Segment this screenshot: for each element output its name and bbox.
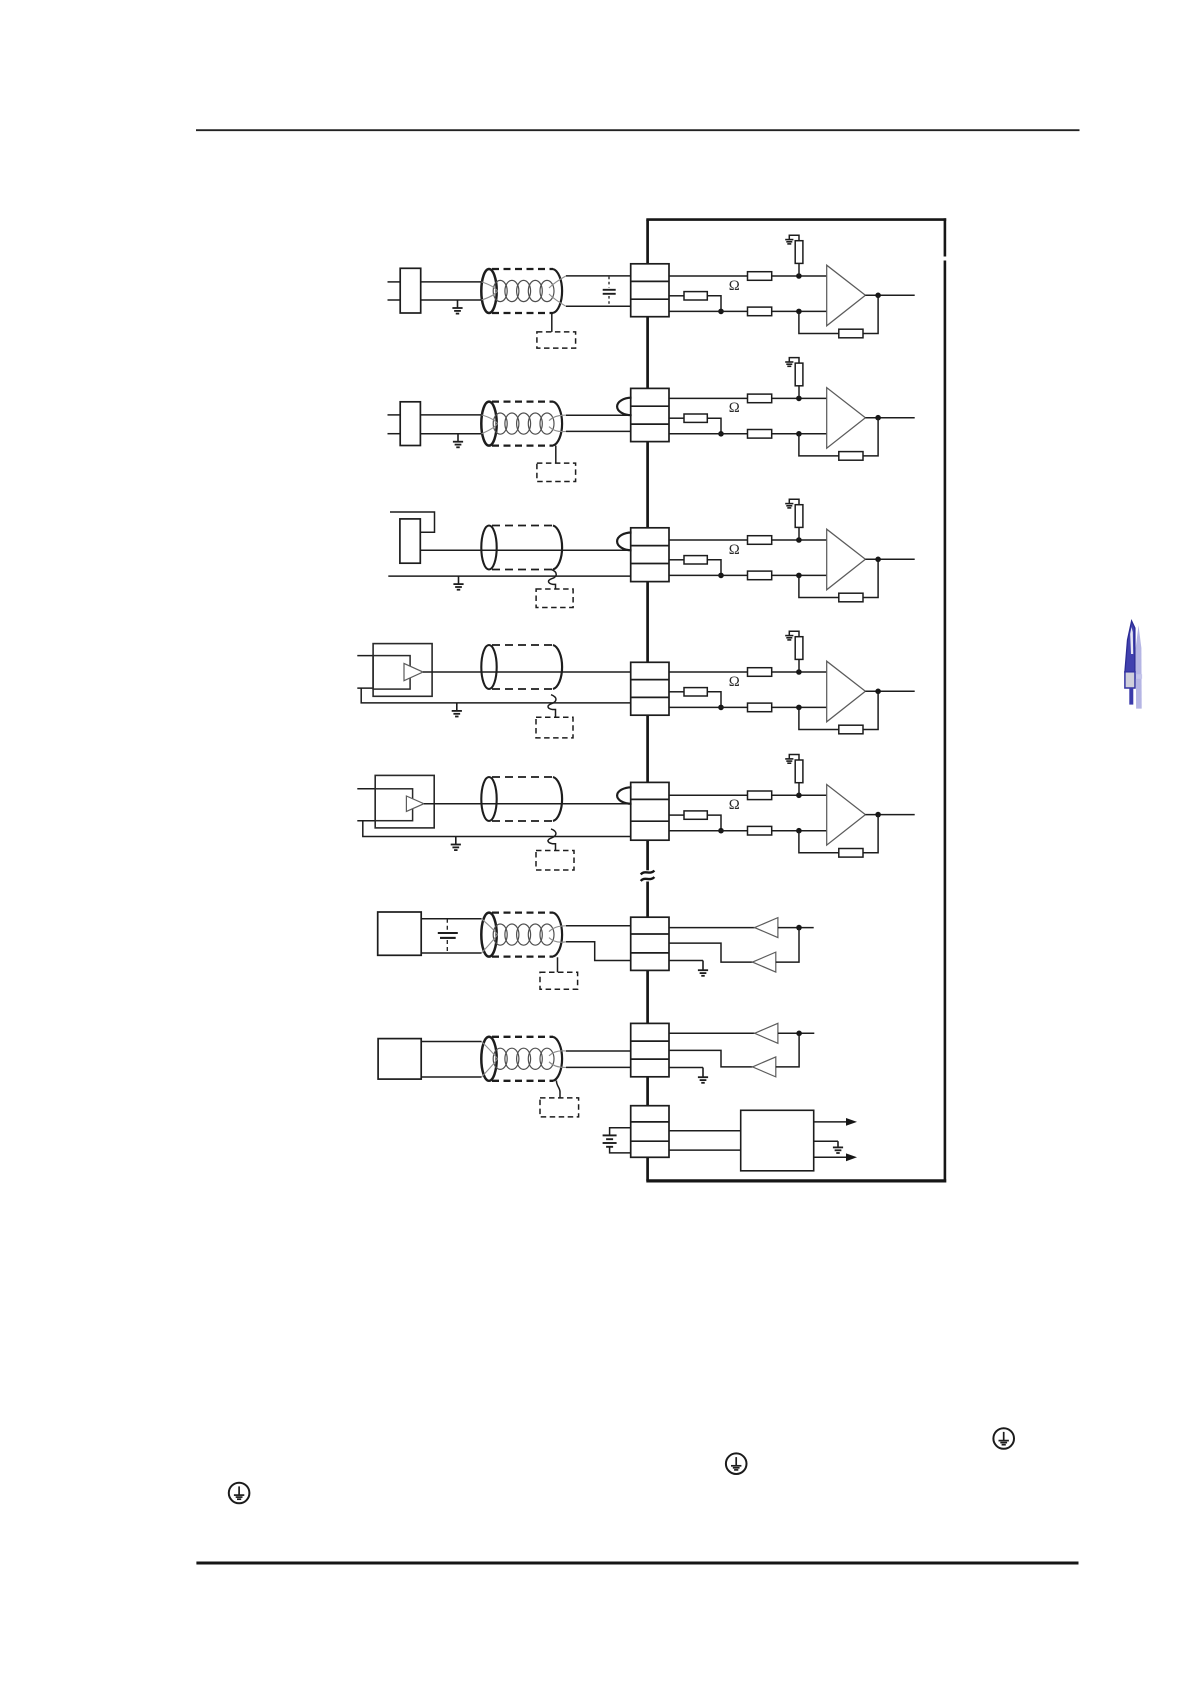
svg-text:Ω: Ω: [729, 797, 740, 813]
svg-text:Ω: Ω: [729, 674, 740, 690]
svg-text:Ω: Ω: [729, 542, 740, 558]
svg-text:Ω: Ω: [729, 278, 740, 294]
svg-text:Ω: Ω: [729, 400, 740, 416]
